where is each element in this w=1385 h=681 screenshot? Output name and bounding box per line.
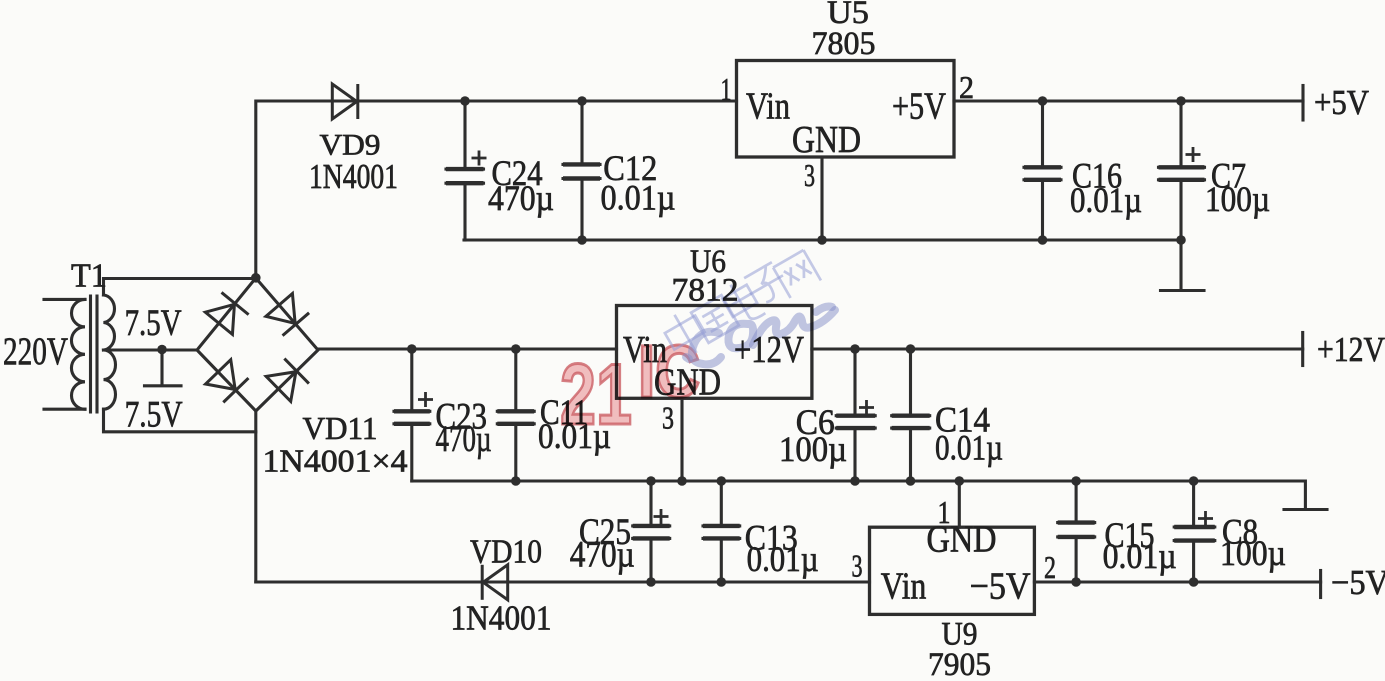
svg-text:1: 1 (721, 71, 732, 107)
svg-text:+5V: +5V (892, 86, 946, 128)
svg-text:VD11: VD11 (303, 410, 378, 446)
svg-text:0.01µ: 0.01µ (935, 428, 1003, 468)
svg-text:Vin: Vin (881, 566, 927, 608)
svg-text:3: 3 (852, 548, 863, 584)
svg-text:470µ: 470µ (570, 535, 635, 576)
svg-text:100µ: 100µ (1205, 179, 1270, 219)
svg-text:T1: T1 (71, 258, 107, 295)
svg-text:0.01µ: 0.01µ (1103, 536, 1177, 576)
svg-text:Vin: Vin (746, 86, 790, 128)
svg-text:1N4001×4: 1N4001×4 (263, 443, 408, 479)
svg-text:0.01µ: 0.01µ (601, 178, 676, 218)
svg-text:0.01µ: 0.01µ (747, 539, 819, 579)
svg-text:470µ: 470µ (436, 419, 492, 460)
svg-text:1N4001: 1N4001 (309, 157, 398, 196)
svg-text:7805: 7805 (812, 26, 876, 62)
svg-text:GND: GND (792, 119, 861, 161)
svg-text:0.01µ: 0.01µ (1070, 180, 1142, 220)
svg-text:220V: 220V (3, 330, 68, 373)
svg-text:+12V: +12V (1317, 330, 1385, 369)
svg-text:−5V: −5V (970, 566, 1031, 608)
svg-text:+5V: +5V (1314, 83, 1369, 122)
svg-text:3: 3 (804, 157, 815, 193)
svg-text:−5V: −5V (1331, 563, 1385, 602)
svg-text:100µ: 100µ (779, 429, 847, 469)
svg-text:7.5V: 7.5V (125, 395, 183, 436)
svg-text:7905: 7905 (928, 647, 991, 676)
svg-text:21: 21 (560, 347, 632, 443)
svg-text:470µ: 470µ (488, 178, 554, 218)
svg-text:1: 1 (938, 494, 951, 530)
svg-text:2: 2 (1044, 549, 1056, 585)
svg-text:VD10: VD10 (470, 534, 542, 571)
svg-text:1N4001: 1N4001 (451, 599, 552, 638)
svg-text:100µ: 100µ (1220, 533, 1286, 573)
svg-text:7.5V: 7.5V (125, 303, 182, 344)
svg-text:2: 2 (959, 69, 974, 105)
